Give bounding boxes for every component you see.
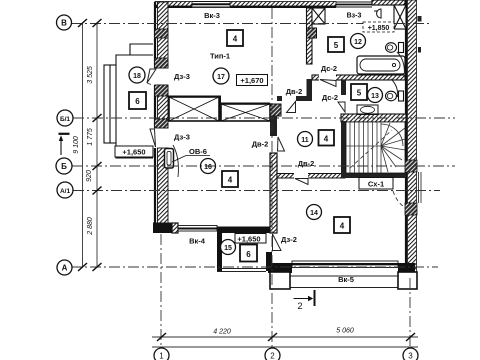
svg-text:11: 11: [301, 137, 309, 144]
svg-text:13: 13: [371, 93, 379, 100]
vestibule 15 left wall: [217, 233, 222, 271]
hatched pier right of closet band: [270, 104, 281, 116]
svg-text:Сх-1: Сх-1: [368, 180, 384, 189]
stair treads: [346, 122, 405, 173]
box 5 bathroom 13: [351, 84, 367, 100]
section marker 1 left: [59, 134, 70, 155]
room 14 bottom wall left black: [268, 263, 292, 273]
axis circle 3 bottom: [403, 348, 418, 360]
door Дв-2 gap corridor to room 14: [294, 173, 308, 180]
bottom dimension line: [152, 336, 418, 338]
svg-text:4: 4: [228, 176, 233, 185]
closet band step connector: [219, 96, 222, 122]
svg-text:18: 18: [133, 73, 141, 80]
svg-text:9 100: 9 100: [73, 136, 80, 154]
radiator ОВ-6: [165, 149, 174, 169]
porch column right: [398, 272, 417, 289]
svg-text:3: 3: [408, 352, 413, 360]
room circle 16: [201, 159, 216, 174]
svg-text:Дс-2: Дс-2: [322, 93, 338, 102]
svg-text:5: 5: [334, 41, 339, 50]
left exterior wall middle segment: [158, 85, 169, 128]
stair up dashed line: [350, 130, 392, 168]
room circle 11: [298, 132, 313, 147]
room circle 13: [368, 88, 383, 103]
left terrace outline: [116, 44, 153, 158]
sink top right: [374, 9, 381, 18]
svg-text:Дз-3: Дз-3: [174, 133, 190, 142]
axis line B/1 horizontal: [73, 117, 455, 119]
svg-text:Тип-1: Тип-1: [210, 52, 230, 61]
window Вк-5 band: [292, 261, 398, 268]
door Дв-2 room16 leaf: [278, 137, 285, 151]
box 4 room 14: [334, 217, 350, 233]
svg-text:5 060: 5 060: [336, 328, 354, 335]
wall between room 16 and corridor upper: [270, 116, 277, 136]
room circle 17: [213, 68, 229, 84]
top wall right segment: [230, 2, 336, 7]
label ОВ-6 underlined: [172, 147, 210, 162]
svg-text:Дв-2: Дв-2: [286, 87, 303, 96]
wall between room 16 and room 14: [270, 153, 277, 233]
bathroom 12 bottom wall: [312, 75, 405, 80]
svg-text:4 220: 4 220: [213, 329, 231, 336]
small hatched pier: [307, 28, 317, 38]
label box Сх-1: [359, 178, 393, 190]
svg-text:Дв-2: Дв-2: [298, 159, 315, 168]
svg-text:17: 17: [217, 74, 225, 81]
vestibule 15 right wall: [266, 252, 272, 271]
svg-text:В: В: [61, 19, 67, 28]
svg-text:12: 12: [354, 39, 362, 46]
bottom wall black segment over vestibule: [217, 227, 271, 234]
svg-text:6: 6: [246, 250, 251, 259]
room circle 12: [351, 34, 366, 49]
door Дз-2 leaf: [273, 234, 282, 251]
vent shaft with X top: [312, 8, 325, 24]
axis line Б horizontal: [72, 165, 455, 167]
svg-text:Дз-3: Дз-3: [174, 72, 190, 81]
level box +1,650 terrace: [115, 146, 153, 157]
door Дз-3 upper leaf: [147, 69, 156, 85]
axis line A horizontal: [71, 266, 438, 268]
axis circle Б: [56, 158, 72, 174]
right wall window outer lines: [419, 172, 422, 203]
bottom-left wall segment: [172, 223, 178, 233]
window Вз-3 top: [336, 2, 372, 7]
right exterior wall: [405, 0, 407, 273]
right wall small tick upper: [418, 16, 422, 22]
right wall jamb block lower: [405, 203, 417, 215]
closet band 2 with X: [221, 104, 270, 121]
left wall outer heavy edge lower: [154, 148, 156, 231]
window Вк-4 in bottom wall: [178, 226, 217, 232]
bathtub: [357, 56, 405, 74]
svg-text:А: А: [62, 264, 68, 273]
door Дз-3 lower leaf: [150, 129, 178, 177]
stairwell bottom wall: [341, 173, 406, 178]
dimension ticks left: [78, 19, 102, 271]
box 6 vestibule: [240, 245, 257, 262]
level box +1,670: [237, 75, 268, 86]
svg-text:3 525: 3 525: [87, 66, 94, 84]
svg-text:4: 4: [233, 35, 238, 44]
svg-text:А/1: А/1: [60, 188, 71, 195]
box 4 corridor: [319, 130, 335, 146]
vestibule 15 bottom step double line: [217, 269, 266, 272]
svg-text:Б: Б: [61, 162, 67, 171]
level box +1,850 dashed: [363, 22, 394, 32]
svg-text:Вк-4: Вк-4: [189, 237, 206, 246]
axis circle А: [57, 260, 72, 275]
vertical dimension line overall 9100: [83, 23, 98, 268]
toilet bathroom 13: [386, 91, 404, 101]
right wall jamb block upper: [405, 160, 417, 172]
left wall lintel block: [155, 29, 169, 38]
porch Вк-5 band: [270, 276, 417, 288]
left exterior wall lower segment: [158, 148, 169, 223]
axis circle 1 bottom: [154, 348, 169, 360]
svg-text:+1,650: +1,650: [122, 148, 145, 157]
door into bathroom 13 leaf: [338, 102, 345, 112]
svg-text:2 880: 2 880: [87, 217, 94, 236]
porch column left: [270, 272, 290, 289]
svg-text:920: 920: [86, 170, 93, 182]
svg-text:ОВ-6: ОВ-6: [189, 147, 207, 156]
axis line A/1 horizontal: [73, 190, 440, 192]
svg-text:4: 4: [340, 222, 345, 231]
closet band 1 with X: [169, 97, 219, 121]
door jamb block lower door top: [155, 119, 169, 128]
axis line 3 vertical: [409, 278, 411, 352]
vertical dimension line segments: [96, 23, 98, 268]
vestibule 15 corner block: [266, 263, 283, 271]
level box +1,650 vestibule: [235, 234, 266, 244]
svg-text:Дв-2: Дв-2: [252, 140, 269, 149]
svg-text:1 775: 1 775: [87, 128, 94, 146]
axis circle Б/1: [57, 110, 73, 126]
corridor bottom wall: [277, 174, 345, 179]
svg-text:5: 5: [357, 89, 362, 98]
right wall small tick mid: [418, 47, 421, 53]
svg-text:2: 2: [270, 352, 275, 360]
axis line 1 vertical: [160, 234, 162, 352]
svg-text:Дз-2: Дз-2: [281, 235, 297, 244]
wall between room 17 and bathroom 12: [307, 8, 313, 64]
axis circle 2 bottom: [265, 348, 280, 360]
door Дс-2 leaf bathroom 12: [320, 80, 336, 87]
axis line B horizontal: [71, 8, 455, 352]
svg-text:1: 1: [159, 352, 164, 360]
top-right wall segment: [372, 0, 405, 5]
flexible connector arc bathroom 12: [397, 52, 405, 73]
room circle 15: [221, 240, 236, 255]
flexible connector arc bathroom 13: [391, 79, 398, 97]
dashed door arc bottom right: [393, 191, 406, 208]
sink bathroom 13: [357, 105, 378, 115]
closet band top bar 1: [168, 96, 221, 100]
bathroom 13 bottom wall / stairwell top wall: [341, 114, 406, 122]
stairwell left wall: [341, 121, 346, 178]
axis circle В: [57, 15, 72, 30]
bottom-left wall corner black: [153, 223, 172, 234]
section marker 2 bottom: [294, 290, 315, 311]
svg-text:Вк-5: Вк-5: [338, 275, 354, 284]
door Дс-2 gap of bathroom 12: [319, 74, 336, 81]
bathroom 13 left wall: [341, 80, 346, 95]
svg-text:6: 6: [135, 97, 140, 106]
svg-text:Б/1: Б/1: [60, 116, 70, 123]
left wall outer heavy edge middle: [154, 85, 156, 128]
svg-text:Вк-3: Вк-3: [204, 11, 220, 20]
terrace railing double line: [104, 65, 116, 143]
bottom dimension ticks: [157, 333, 415, 341]
left wall outer heavy edge upper: [154, 2, 156, 68]
room circle 18 terrace: [129, 67, 145, 83]
left exterior wall upper segment: [158, 2, 169, 68]
window Вк-3 in top wall: [192, 2, 230, 5]
svg-text:+1,650: +1,650: [237, 235, 260, 244]
svg-text:+1,850: +1,850: [368, 25, 390, 32]
svg-text:14: 14: [310, 210, 318, 217]
room circle 14: [307, 205, 322, 220]
room 14 bottom wall right black: [398, 263, 415, 273]
svg-text:15: 15: [224, 245, 232, 252]
closet band top bar 2: [219, 103, 270, 106]
door Дв-2 leaf to room 17: [287, 102, 296, 113]
svg-text:2: 2: [297, 301, 302, 311]
corridor top wall with door to room 17: [277, 96, 307, 101]
stair winder rays: [381, 123, 405, 172]
door jamb block upper door top: [155, 58, 169, 68]
door jamb block upper door bottom: [155, 85, 169, 96]
box 4 room 16: [222, 171, 238, 187]
axis line 2 vertical: [271, 8, 273, 352]
top wall left segment: [155, 2, 192, 7]
svg-text:16: 16: [204, 164, 212, 171]
bottom axis circle line: [152, 346, 418, 348]
vent shaft with X top right: [394, 5, 406, 29]
box 6 terrace: [129, 92, 146, 109]
svg-text:4: 4: [324, 135, 329, 144]
wall left of vestibule between bathrooms: [307, 79, 313, 101]
svg-text:Вз-3: Вз-3: [347, 13, 362, 20]
door Дв-2 leaf room 14: [295, 179, 308, 185]
svg-text:Дс-2: Дс-2: [321, 64, 337, 73]
svg-text:+1,670: +1,670: [240, 76, 263, 85]
axis circle А/1: [57, 182, 73, 198]
box 4 room 17: [227, 30, 243, 46]
box 5 bathroom 12: [328, 37, 344, 52]
toilet bathroom 12: [386, 43, 404, 53]
